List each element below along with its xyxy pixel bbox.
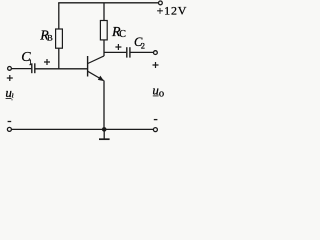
terminal input u_i top: [8, 67, 12, 71]
capacitor C2: [126, 47, 128, 57]
wire collector node to C2: [104, 51, 126, 53]
plus after C1: [44, 59, 50, 65]
svg-text:2: 2: [141, 40, 145, 50]
plus before C2: [115, 44, 121, 50]
wire R_B bottom (box to base node): [58, 48, 60, 69]
wire bottom rail: [12, 128, 154, 130]
node emitter-ground junction: [102, 127, 107, 132]
transistor Q collector lead: [88, 56, 104, 64]
transistor Q emitter lead with arrow: [88, 71, 104, 80]
wire R_B top (rail to box): [58, 3, 60, 29]
terminal output u_o top: [154, 51, 158, 55]
plus output: [153, 62, 159, 68]
svg-text:B: B: [47, 33, 53, 43]
svg-text:1: 1: [28, 58, 32, 67]
plus input: [7, 75, 13, 81]
minus input: [8, 121, 12, 123]
terminal input bottom: [7, 127, 11, 131]
wire R_C bottom (box to collector node): [103, 40, 105, 56]
terminal +12V supply: [159, 1, 163, 5]
svg-text:+12V: +12V: [157, 4, 187, 18]
svg-text:o: o: [159, 89, 164, 100]
terminal output bottom: [153, 128, 157, 132]
wire R_C top (rail to box): [103, 3, 105, 21]
svg-text:ı: ı: [12, 91, 14, 100]
wire C2 to output terminal: [131, 51, 154, 53]
svg-text:C: C: [119, 29, 126, 40]
wire emitter down: [103, 81, 105, 130]
wire top supply rail: [58, 2, 158, 4]
wire input to C1: [12, 68, 32, 70]
transistor Q base bar: [87, 56, 88, 77]
resistor R_C: [100, 21, 107, 40]
wire base (C1 to transistor base): [35, 68, 87, 70]
minus output: [154, 119, 158, 121]
ground: [103, 129, 105, 138]
capacitor C1: [31, 63, 33, 73]
resistor R_B: [56, 29, 63, 48]
